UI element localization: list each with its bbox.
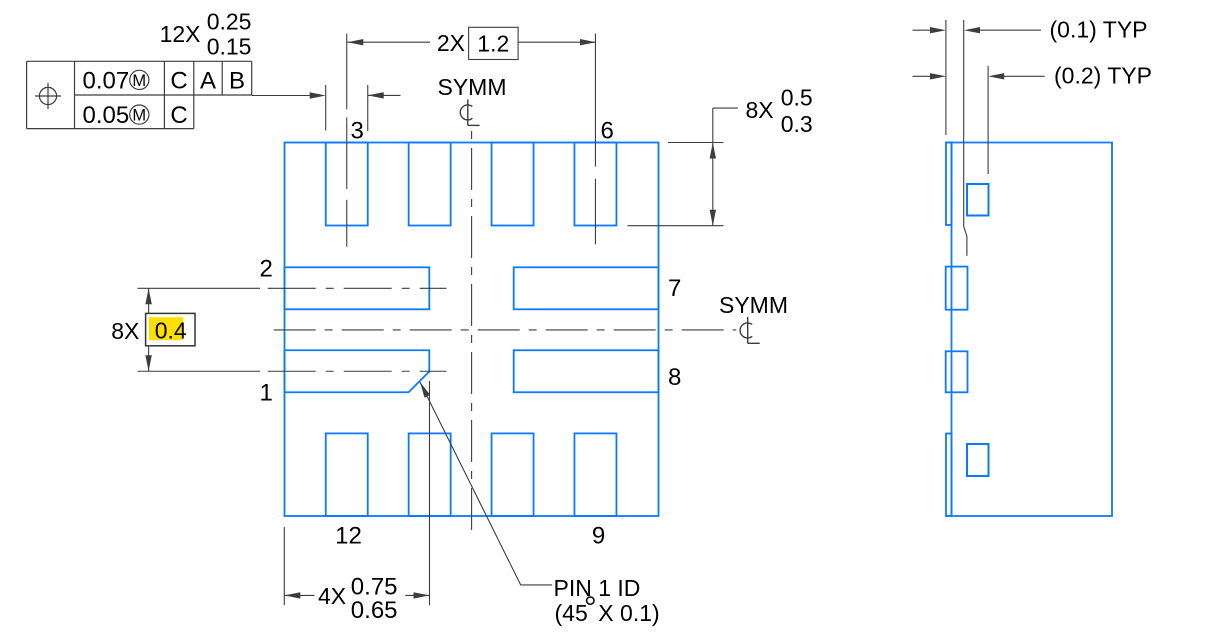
centerline pad6 vertical <box>594 34 596 245</box>
dim 4X ext lines <box>283 527 285 605</box>
svg-text:3: 3 <box>351 118 364 145</box>
svg-text:0.25: 0.25 <box>207 9 252 35</box>
svg-text:8X: 8X <box>111 318 139 344</box>
side bottom terminal strip <box>946 434 952 517</box>
centerline pad2 horizontal <box>138 287 447 289</box>
FCF leader <box>252 95 311 97</box>
svg-text:M: M <box>132 107 146 125</box>
arrow 0.5/0.3 down <box>710 210 716 226</box>
svg-text:1.2: 1.2 <box>477 31 509 57</box>
arrow pin1 leader <box>420 382 430 398</box>
dim (0.2) TYP lines <box>913 75 931 77</box>
svg-text:0.65: 0.65 <box>351 597 398 624</box>
yellow highlight <box>149 317 183 340</box>
side top terminal strip <box>946 143 952 226</box>
arrow dim1.2 right <box>580 39 596 45</box>
pad 8 <box>514 350 659 392</box>
svg-text:0.15: 0.15 <box>207 34 252 60</box>
pad 1 with pin-1 chamfer <box>285 350 430 392</box>
dim 8X 0.5/0.3 ext lines <box>668 142 723 144</box>
arrow (0.1) left <box>930 27 946 33</box>
svg-text:C: C <box>170 67 187 94</box>
horizontal symmetry centerline <box>268 329 737 331</box>
svg-text:SYMM: SYMM <box>438 74 507 100</box>
pad 10 <box>492 433 534 516</box>
svg-text:8X: 8X <box>746 97 774 123</box>
pad 5 <box>492 143 534 226</box>
modifier circle M row1 <box>130 70 149 89</box>
pad 2 <box>285 267 430 309</box>
basic dim box 0.4 <box>146 313 195 345</box>
centerline symbol top <box>460 99 479 125</box>
position symbol <box>39 87 56 104</box>
svg-text:0.3: 0.3 <box>781 111 813 137</box>
centerline pad3 vertical <box>346 34 348 247</box>
svg-text:M: M <box>132 72 146 90</box>
arrow dim1.2 left <box>347 39 363 45</box>
dim 2X 1.2 lines <box>347 41 430 43</box>
dim 8X 0.4 dimension line <box>148 288 150 313</box>
dim 4X dimension line <box>284 594 314 596</box>
svg-text:6: 6 <box>601 118 614 145</box>
pad 6 <box>574 143 616 226</box>
package body outline <box>285 143 659 517</box>
pad 12 <box>326 433 368 516</box>
centerline symbol right <box>740 317 760 343</box>
side left edge <box>951 143 953 517</box>
svg-text:9: 9 <box>592 523 605 550</box>
side body outline <box>946 143 1112 517</box>
svg-text:(45: (45 <box>555 600 588 626</box>
svg-text:1: 1 <box>260 380 273 407</box>
arrow 0.4 up <box>145 288 151 304</box>
svg-text:PIN 1 ID: PIN 1 ID <box>554 575 641 601</box>
pad 4 <box>409 143 451 226</box>
arrow 12X right <box>368 92 384 98</box>
dim 12X ext lines <box>325 85 327 131</box>
pad 9 <box>574 433 616 516</box>
centerlines <box>138 34 737 532</box>
dim (0.1) TYP lines <box>913 29 931 31</box>
svg-text:7: 7 <box>668 275 681 302</box>
arrow 4X left <box>284 592 300 598</box>
svg-text:A: A <box>200 67 216 94</box>
side ext line B with jog <box>964 20 967 256</box>
arrowheads <box>145 39 716 599</box>
svg-text:12X: 12X <box>160 21 201 47</box>
arrow (0.2) right <box>988 73 1004 79</box>
side ext line C <box>987 66 989 174</box>
svg-text:2: 2 <box>260 256 273 283</box>
arrow (0.2) left <box>930 73 946 79</box>
svg-text:12: 12 <box>335 523 362 550</box>
svg-text:C: C <box>170 102 187 129</box>
vertical symmetry centerline <box>471 128 473 531</box>
pin1 leader line <box>420 382 552 585</box>
side pad 2 <box>946 267 968 310</box>
arrow 4X right <box>414 592 430 598</box>
highlighted basic dim 0.4 <box>146 313 195 345</box>
pad 7 <box>514 267 659 309</box>
arrow (0.1) right <box>964 27 980 33</box>
svg-text:4X: 4X <box>318 583 346 609</box>
svg-text:(0.1) TYP: (0.1) TYP <box>1050 16 1148 42</box>
arrow 12X leader <box>310 92 326 98</box>
pad 11 <box>409 433 451 516</box>
svg-text:X 0.1): X 0.1) <box>598 600 659 626</box>
side small pad bottom <box>967 444 989 476</box>
svg-text:SYMM: SYMM <box>719 292 788 318</box>
svg-text:0.4: 0.4 <box>155 318 187 344</box>
centerline pad1 horizontal <box>138 370 447 372</box>
svg-text:2X: 2X <box>437 30 465 56</box>
FCF borders <box>27 60 252 62</box>
basic dim box 1.2 <box>469 27 518 59</box>
svg-text:0.07: 0.07 <box>83 67 130 94</box>
side pad 1 <box>946 351 968 392</box>
svg-text:(0.2) TYP: (0.2) TYP <box>1054 62 1152 88</box>
svg-text:0.5: 0.5 <box>781 84 813 110</box>
side small pad top <box>967 184 989 216</box>
pad 3 <box>326 143 368 226</box>
degree symbol of 45 <box>587 597 594 604</box>
dim 8X 0.5/0.3 dimension line + leader <box>712 108 714 226</box>
side ext line A <box>945 20 947 135</box>
svg-text:0.05: 0.05 <box>83 102 130 129</box>
modifier circle M row2 <box>130 105 149 124</box>
svg-text:8: 8 <box>668 364 681 391</box>
svg-text:B: B <box>229 67 245 94</box>
arrow 0.4 down <box>145 355 151 371</box>
arrow 0.5/0.3 up <box>710 143 716 159</box>
